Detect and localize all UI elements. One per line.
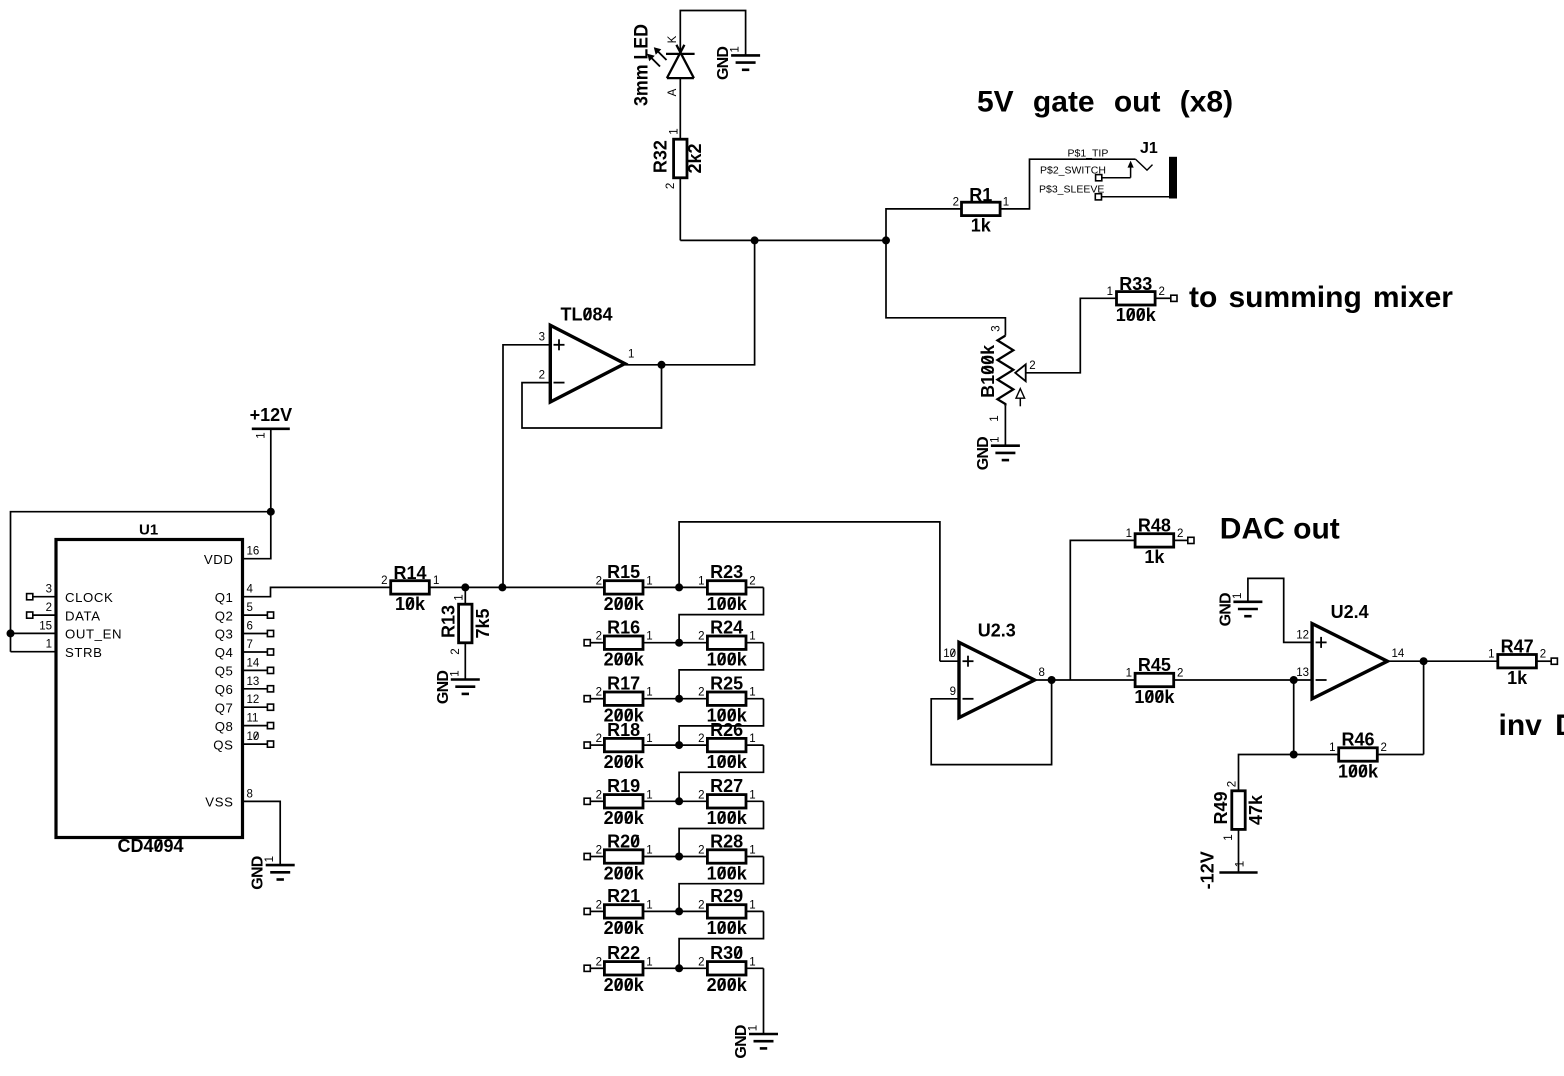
svg-text:7: 7 xyxy=(247,639,253,651)
pin 3 CLOCK xyxy=(27,594,33,600)
svg-text:U1: U1 xyxy=(139,522,158,539)
svg-text:14: 14 xyxy=(247,657,260,669)
svg-text:1: 1 xyxy=(1003,197,1009,209)
svg-text:2: 2 xyxy=(1227,781,1239,787)
svg-text:R24: R24 xyxy=(710,618,743,638)
svg-text:A: A xyxy=(667,88,679,96)
svg-text:16: 16 xyxy=(247,546,260,558)
svg-text:R13: R13 xyxy=(439,605,459,638)
resistor R18 200k xyxy=(584,742,590,748)
svg-text:2: 2 xyxy=(596,789,602,801)
wire xyxy=(503,345,550,588)
node ladder junction 3 xyxy=(675,695,683,703)
wire xyxy=(763,968,765,1034)
svg-text:2: 2 xyxy=(1159,286,1165,298)
svg-text:7k5: 7k5 xyxy=(473,608,493,638)
svg-text:2: 2 xyxy=(450,648,462,654)
pin 11 Q8 xyxy=(243,725,268,727)
wire xyxy=(680,11,745,56)
node R46 junction xyxy=(1290,751,1298,759)
wire xyxy=(243,801,281,865)
wire xyxy=(679,745,763,801)
svg-text:5V gate out (x8): 5V gate out (x8) xyxy=(977,86,1233,119)
pin 12 Q7 xyxy=(243,706,268,708)
svg-text:100k: 100k xyxy=(707,918,748,938)
svg-text:100k: 100k xyxy=(707,650,748,670)
ground xyxy=(991,444,1020,447)
svg-text:2: 2 xyxy=(665,183,677,189)
wire xyxy=(1238,829,1240,872)
op-amp U2.3 xyxy=(959,642,1035,717)
wire xyxy=(1387,660,1498,662)
wire xyxy=(679,587,763,642)
wire xyxy=(464,643,466,680)
svg-text:14: 14 xyxy=(1392,648,1405,660)
svg-text:1: 1 xyxy=(749,631,755,643)
pin 5 Q2 xyxy=(243,614,268,616)
resistor R15 200k xyxy=(604,581,643,594)
svg-text:1: 1 xyxy=(1329,742,1335,754)
svg-text:R26: R26 xyxy=(710,720,743,740)
svg-text:R46: R46 xyxy=(1341,730,1374,750)
svg-text:13: 13 xyxy=(247,676,260,688)
svg-text:+12V: +12V xyxy=(250,405,293,425)
svg-text:100k: 100k xyxy=(1134,687,1175,707)
svg-text:200k: 200k xyxy=(604,594,645,614)
wire xyxy=(243,512,271,559)
wire xyxy=(1026,298,1117,373)
node ladder junction 7 xyxy=(675,907,683,915)
svg-text:VSS: VSS xyxy=(205,795,233,810)
svg-text:2: 2 xyxy=(698,845,704,857)
svg-text:1: 1 xyxy=(646,956,652,968)
svg-text:K: K xyxy=(667,35,679,43)
wire xyxy=(679,699,763,745)
svg-text:1: 1 xyxy=(1235,861,1247,867)
wire xyxy=(1248,578,1312,642)
svg-text:Q4: Q4 xyxy=(215,645,234,660)
node gate-net junction xyxy=(751,236,759,244)
wire xyxy=(679,911,763,968)
wire xyxy=(464,587,466,604)
svg-text:100k: 100k xyxy=(707,752,748,772)
svg-text:1: 1 xyxy=(989,436,1001,442)
svg-text:2: 2 xyxy=(596,575,602,587)
resistor R32 2k2 xyxy=(674,139,687,178)
svg-text:3: 3 xyxy=(539,332,545,344)
svg-text:1: 1 xyxy=(646,687,652,699)
svg-text:R23: R23 xyxy=(710,562,743,582)
svg-text:6: 6 xyxy=(247,621,253,633)
svg-text:R1: R1 xyxy=(969,185,992,205)
svg-text:200k: 200k xyxy=(707,975,748,995)
svg-text:1: 1 xyxy=(646,845,652,857)
ground xyxy=(451,678,480,681)
svg-text:9: 9 xyxy=(950,686,956,698)
pin 6 Q3 xyxy=(243,633,268,635)
ground xyxy=(731,54,760,57)
svg-text:U2.3: U2.3 xyxy=(978,620,1016,640)
svg-text:2: 2 xyxy=(698,956,704,968)
svg-text:QS: QS xyxy=(213,737,233,752)
resistor R26 100k xyxy=(679,744,707,746)
resistor R27 100k xyxy=(679,800,707,802)
svg-text:R21: R21 xyxy=(607,886,640,906)
node buffer-in junction xyxy=(498,583,506,591)
svg-text:STRB: STRB xyxy=(65,645,103,660)
svg-text:1: 1 xyxy=(749,687,755,699)
resistor R49 47k xyxy=(1232,791,1245,830)
svg-text:Q7: Q7 xyxy=(215,700,234,715)
resistor R20 200k xyxy=(584,853,590,859)
svg-text:1: 1 xyxy=(1126,668,1132,680)
LED D1 3mm xyxy=(666,53,695,55)
svg-text:2: 2 xyxy=(1177,668,1183,680)
wire xyxy=(429,586,604,588)
node ladder junction 2 xyxy=(675,639,683,647)
svg-text:100k: 100k xyxy=(1116,305,1157,325)
wire xyxy=(931,680,1051,765)
node ladder junction 4 xyxy=(675,741,683,749)
wire xyxy=(1035,679,1136,681)
svg-text:2: 2 xyxy=(596,845,602,857)
svg-text:R47: R47 xyxy=(1501,636,1534,656)
svg-text:R49: R49 xyxy=(1211,791,1231,824)
svg-text:3: 3 xyxy=(46,584,52,596)
svg-text:1: 1 xyxy=(646,575,652,587)
svg-text:2: 2 xyxy=(698,687,704,699)
svg-text:100k: 100k xyxy=(707,808,748,828)
svg-text:100k: 100k xyxy=(1338,761,1379,781)
supply -12V xyxy=(1219,871,1257,874)
resistor R47 1k xyxy=(1498,655,1537,668)
svg-text:1: 1 xyxy=(749,789,755,801)
resistor R46 100k xyxy=(1378,754,1424,756)
svg-text:Q3: Q3 xyxy=(215,627,234,642)
svg-text:2: 2 xyxy=(953,197,959,209)
svg-text:1: 1 xyxy=(1488,649,1494,661)
resistor R48 1k xyxy=(1135,534,1174,547)
resistor R1 1k xyxy=(962,202,1001,215)
svg-text:1k: 1k xyxy=(1144,547,1165,567)
svg-text:R28: R28 xyxy=(710,831,743,851)
svg-text:R29: R29 xyxy=(710,886,743,906)
resistor R24 100k xyxy=(679,642,707,644)
pin 10 QS xyxy=(243,743,268,745)
resistor R23 100k xyxy=(679,586,707,588)
svg-text:12: 12 xyxy=(247,694,260,706)
node TL084 output junction xyxy=(658,361,666,369)
resistor R33 100k xyxy=(1117,292,1156,305)
svg-text:R27: R27 xyxy=(710,776,743,796)
svg-text:11: 11 xyxy=(247,713,259,725)
wire xyxy=(1070,540,1135,680)
node R13 junction xyxy=(461,583,469,591)
svg-text:1: 1 xyxy=(46,639,52,651)
resistor R17 200k xyxy=(584,696,590,702)
svg-text:12: 12 xyxy=(1296,629,1309,641)
svg-text:1: 1 xyxy=(628,349,634,361)
wire xyxy=(270,429,272,512)
svg-text:1: 1 xyxy=(646,733,652,745)
svg-text:200k: 200k xyxy=(604,863,645,883)
resistor R45 100k xyxy=(1135,673,1174,686)
svg-text:R14: R14 xyxy=(393,563,426,583)
svg-text:200k: 200k xyxy=(604,650,645,670)
svg-text:1: 1 xyxy=(730,46,742,52)
svg-text:2: 2 xyxy=(1540,649,1546,661)
svg-text:1: 1 xyxy=(1232,593,1244,599)
svg-text:2: 2 xyxy=(596,733,602,745)
svg-text:U2.4: U2.4 xyxy=(1331,602,1369,622)
svg-text:-12V: -12V xyxy=(1198,851,1218,889)
svg-text:1k: 1k xyxy=(1507,668,1528,688)
resistor R28 100k xyxy=(679,856,707,858)
wire xyxy=(886,240,1005,335)
svg-text:2: 2 xyxy=(596,956,602,968)
svg-text:2: 2 xyxy=(1029,360,1035,372)
svg-text:1: 1 xyxy=(264,856,276,862)
svg-text:J1: J1 xyxy=(1140,140,1158,157)
node U2.3 output junction xyxy=(1048,676,1056,684)
svg-text:R33: R33 xyxy=(1119,274,1152,294)
svg-text:DAC out: DAC out xyxy=(1220,512,1340,545)
svg-text:R48: R48 xyxy=(1138,516,1171,536)
svg-text:2: 2 xyxy=(381,575,387,587)
svg-text:1: 1 xyxy=(433,575,439,587)
pin 7 Q4 xyxy=(243,651,268,653)
wire xyxy=(1000,159,1136,209)
resistor R13 7k5 xyxy=(459,604,472,643)
svg-text:2: 2 xyxy=(698,733,704,745)
svg-text:1: 1 xyxy=(1223,834,1235,840)
svg-text:1k: 1k xyxy=(971,216,992,236)
svg-text:inv D: inv D xyxy=(1499,709,1564,742)
svg-text:3: 3 xyxy=(991,325,1003,331)
svg-text:1: 1 xyxy=(698,575,704,587)
svg-text:2: 2 xyxy=(539,370,545,382)
svg-text:1: 1 xyxy=(646,899,652,911)
node ladder junction 8 xyxy=(675,964,683,972)
svg-text:VDD: VDD xyxy=(204,552,234,567)
wire xyxy=(1174,679,1312,681)
pin 13 Q6 xyxy=(243,688,268,690)
wire xyxy=(522,365,662,428)
svg-text:200k: 200k xyxy=(604,975,645,995)
svg-text:Q8: Q8 xyxy=(215,719,234,734)
svg-text:R18: R18 xyxy=(607,720,640,740)
node ladder junction 1 xyxy=(675,583,683,591)
svg-text:1: 1 xyxy=(256,432,268,438)
svg-text:1: 1 xyxy=(1107,286,1113,298)
wire xyxy=(680,239,886,241)
svg-text:2: 2 xyxy=(596,687,602,699)
wire xyxy=(679,857,763,912)
pin 14 Q5 xyxy=(243,669,268,671)
svg-text:R17: R17 xyxy=(607,674,640,694)
resistor R29 100k xyxy=(679,910,707,912)
wire xyxy=(11,651,57,653)
wire xyxy=(1293,680,1295,755)
svg-text:1: 1 xyxy=(989,415,1001,421)
svg-text:200k: 200k xyxy=(604,752,645,772)
wire xyxy=(1423,661,1425,754)
wire xyxy=(679,178,681,241)
svg-text:Q1: Q1 xyxy=(215,590,234,605)
wire xyxy=(625,240,755,364)
IC U1 CD4094 body xyxy=(56,540,243,838)
svg-text:1: 1 xyxy=(749,733,755,745)
resistor R22 200k xyxy=(584,965,590,971)
svg-text:1: 1 xyxy=(749,899,755,911)
ground xyxy=(266,864,295,867)
pin 2 DATA xyxy=(27,612,33,618)
svg-text:to summing mixer: to summing mixer xyxy=(1189,281,1453,314)
svg-text:2: 2 xyxy=(1177,528,1183,540)
potentiometer R34 B100k xyxy=(998,336,1014,406)
svg-text:8: 8 xyxy=(247,788,253,800)
svg-text:4: 4 xyxy=(247,584,254,596)
resistor R19 200k xyxy=(584,798,590,804)
svg-text:8: 8 xyxy=(1039,667,1045,679)
svg-text:1: 1 xyxy=(454,594,466,600)
svg-text:2: 2 xyxy=(698,899,704,911)
wire xyxy=(1004,406,1006,446)
resistor R16 200k xyxy=(584,640,590,646)
svg-text:13: 13 xyxy=(1296,667,1309,679)
resistor R25 100k xyxy=(679,698,707,700)
svg-text:1: 1 xyxy=(669,128,681,134)
op-amp U2.4 xyxy=(1312,624,1387,699)
wire xyxy=(940,660,959,662)
svg-text:CLOCK: CLOCK xyxy=(65,590,113,605)
svg-text:R22: R22 xyxy=(607,943,640,963)
wire xyxy=(679,522,940,661)
node VCC junction xyxy=(267,508,275,516)
svg-text:2: 2 xyxy=(46,602,52,614)
ground xyxy=(1233,600,1262,603)
svg-text:CD4094: CD4094 xyxy=(117,836,183,856)
wire xyxy=(886,209,962,241)
svg-text:R32: R32 xyxy=(651,140,671,173)
op-amp U2 TL084 xyxy=(550,325,625,402)
node inverter-in junction xyxy=(1290,676,1298,684)
svg-text:R19: R19 xyxy=(607,776,640,796)
svg-text:2: 2 xyxy=(698,631,704,643)
wire xyxy=(679,643,763,699)
node ladder junction 5 xyxy=(675,797,683,805)
svg-text:3mm LED: 3mm LED xyxy=(631,24,652,106)
svg-text:1: 1 xyxy=(749,845,755,857)
wire xyxy=(1239,755,1294,791)
svg-text:Q6: Q6 xyxy=(215,682,234,697)
svg-text:2k2: 2k2 xyxy=(685,143,705,173)
svg-text:2: 2 xyxy=(749,575,755,587)
svg-text:OUT_EN: OUT_EN xyxy=(65,627,122,642)
node U2.4 output junction xyxy=(1420,657,1428,665)
ground xyxy=(749,1033,778,1036)
svg-text:5: 5 xyxy=(247,602,253,614)
svg-text:Q5: Q5 xyxy=(215,664,234,679)
svg-text:100k: 100k xyxy=(707,594,748,614)
wire xyxy=(11,512,271,652)
wire xyxy=(11,632,57,634)
svg-text:1: 1 xyxy=(646,789,652,801)
svg-text:P$1_TIP: P$1_TIP xyxy=(1068,147,1109,159)
svg-text:Q2: Q2 xyxy=(215,608,234,623)
svg-text:1: 1 xyxy=(646,631,652,643)
svg-text:R25: R25 xyxy=(710,674,743,694)
svg-text:1: 1 xyxy=(449,670,461,676)
svg-text:1: 1 xyxy=(1126,528,1132,540)
svg-text:R45: R45 xyxy=(1138,655,1171,675)
wire xyxy=(679,78,681,139)
svg-text:2: 2 xyxy=(596,899,602,911)
svg-text:2: 2 xyxy=(596,631,602,643)
resistor R21 200k xyxy=(584,908,590,914)
resistor R14 10k xyxy=(391,581,430,594)
svg-text:200k: 200k xyxy=(604,808,645,828)
svg-text:2: 2 xyxy=(1381,742,1387,754)
wire xyxy=(243,587,391,596)
svg-text:15: 15 xyxy=(39,620,52,632)
svg-text:R15: R15 xyxy=(607,562,640,582)
svg-text:1: 1 xyxy=(748,1025,760,1031)
node gate-net junction xyxy=(882,236,890,244)
wire xyxy=(679,801,763,856)
svg-text:R16: R16 xyxy=(607,618,640,638)
node ladder junction 6 xyxy=(675,853,683,861)
svg-text:47k: 47k xyxy=(1246,794,1266,825)
resistor R30 200k xyxy=(679,967,707,969)
svg-text:200k: 200k xyxy=(604,918,645,938)
node OUT_EN junction xyxy=(7,629,15,637)
svg-text:100k: 100k xyxy=(707,863,748,883)
svg-text:DATA: DATA xyxy=(65,608,101,623)
svg-text:2: 2 xyxy=(698,789,704,801)
svg-text:1: 1 xyxy=(749,956,755,968)
